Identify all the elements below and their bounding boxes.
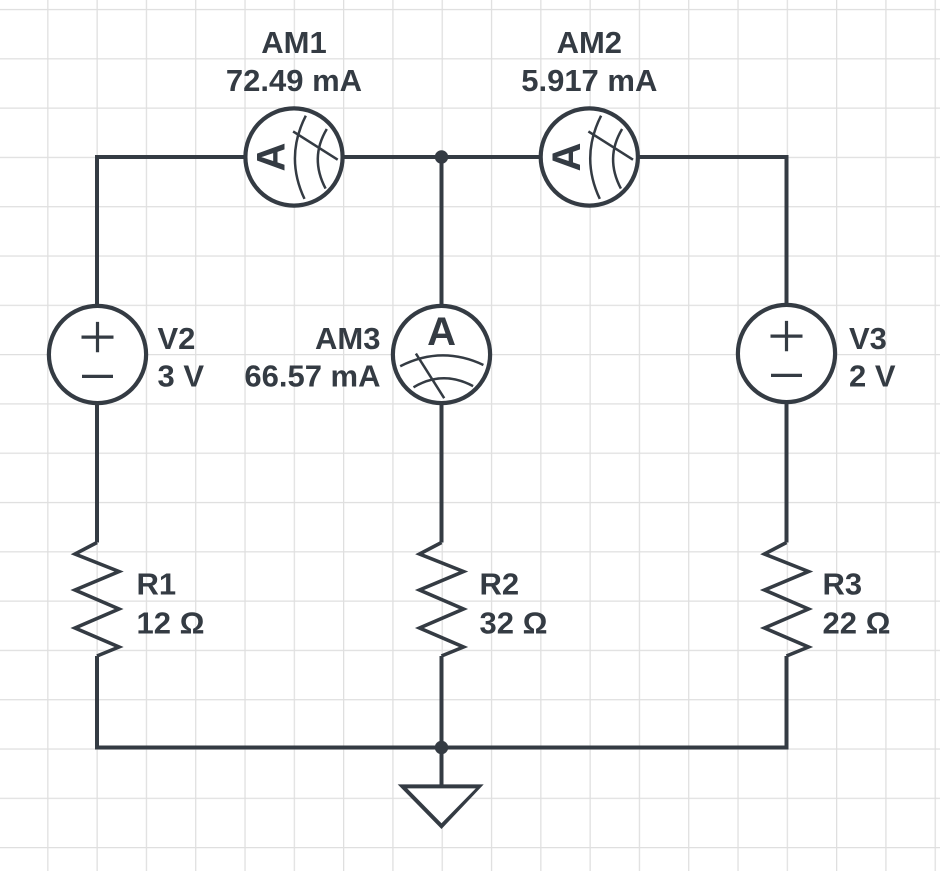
svg-text:V3: V3 (849, 321, 887, 356)
label R2 value (480, 606, 548, 641)
svg-text:R1: R1 (137, 567, 177, 602)
svg-text:A: A (250, 143, 294, 172)
wire middle branch lower (R2 to node N2) (440, 656, 444, 748)
label R2 designator (480, 567, 520, 602)
wire bottom bus right segment (node N2 to R3) (442, 656, 787, 748)
wire middle branch upper (node N1 to R2) (440, 157, 444, 543)
voltage source V3 (738, 305, 835, 402)
ammeter AM1 (245, 108, 342, 205)
svg-text:32 Ω: 32 Ω (480, 606, 548, 641)
label AM2 value (521, 63, 657, 98)
svg-text:AM3: AM3 (315, 321, 380, 356)
svg-text:72.49 mA: 72.49 mA (226, 63, 362, 98)
label R1 designator (137, 567, 177, 602)
node N1 junction dot (435, 150, 448, 163)
label R3 value (823, 606, 891, 641)
label V3 value (849, 359, 896, 394)
label V2 value (158, 359, 205, 394)
voltage source V2 (49, 306, 146, 403)
ammeter AM2 (541, 108, 638, 205)
svg-text:12 Ω: 12 Ω (137, 606, 205, 641)
label V2 designator (158, 321, 196, 356)
svg-text:2 V: 2 V (849, 359, 896, 394)
label R3 designator (823, 567, 863, 602)
label AM1 designator (261, 25, 326, 60)
label AM3 designator (315, 321, 380, 356)
svg-text:AM2: AM2 (557, 25, 622, 60)
resistor R3 (765, 543, 809, 657)
label AM2 designator (557, 25, 622, 60)
svg-text:AM1: AM1 (261, 25, 326, 60)
wire left lower (R1 to bottom bus) (97, 656, 442, 748)
svg-text:A: A (545, 143, 589, 172)
resistor R2 (420, 543, 464, 657)
svg-text:R3: R3 (823, 567, 863, 602)
label R1 value (137, 606, 205, 641)
svg-text:A: A (427, 310, 456, 354)
label AM1 value (226, 63, 362, 98)
wire top bus left segment (V2 top to node N1) (97, 157, 442, 543)
ammeter AM3 (393, 306, 490, 403)
svg-text:V2: V2 (158, 321, 196, 356)
svg-text:66.57 mA: 66.57 mA (244, 359, 380, 394)
resistor R1 (75, 543, 119, 657)
svg-text:22 Ω: 22 Ω (823, 606, 891, 641)
label V3 designator (849, 321, 887, 356)
node N2 junction dot (435, 741, 448, 754)
label AM3 value (244, 359, 380, 394)
svg-text:3 V: 3 V (158, 359, 205, 394)
svg-text:5.917 mA: 5.917 mA (521, 63, 657, 98)
wire top bus right segment (node N1 to V3 top) (442, 157, 787, 543)
ground (398, 748, 484, 830)
svg-text:R2: R2 (480, 567, 520, 602)
